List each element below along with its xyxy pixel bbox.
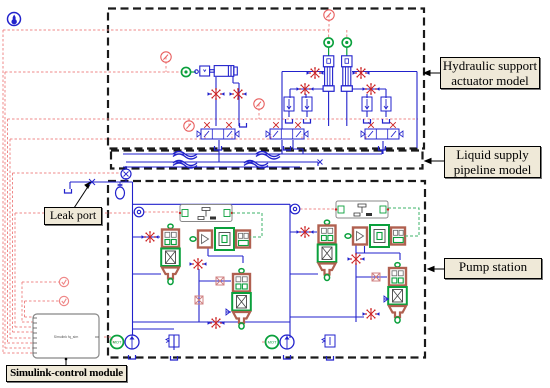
svg-text:Simulink fq_sim: Simulink fq_sim xyxy=(54,335,79,339)
